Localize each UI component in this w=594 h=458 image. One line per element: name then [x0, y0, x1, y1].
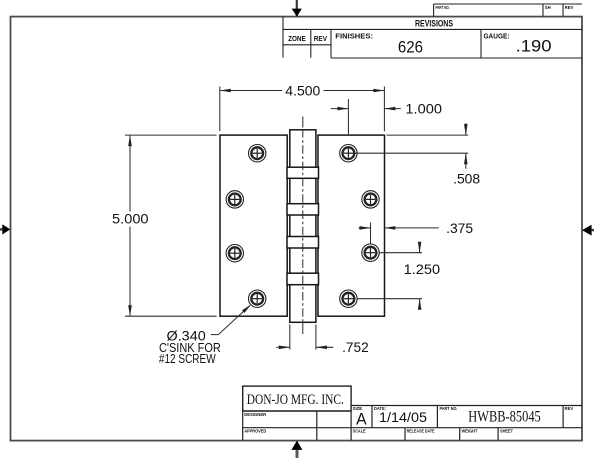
dimension 1.250	[358, 242, 423, 308]
screw hole R2	[362, 191, 379, 208]
svg-text:APPROVED: APPROVED	[244, 428, 266, 434]
svg-text:SH: SH	[545, 5, 551, 11]
svg-text:.752: .752	[342, 340, 369, 355]
screw hole R4	[340, 290, 357, 307]
centering mark right	[582, 225, 594, 236]
svg-text:SCALE: SCALE	[353, 428, 367, 434]
screw hole L3	[226, 245, 243, 262]
svg-text:HWBB-85045: HWBB-85045	[468, 408, 541, 425]
pin centerline	[302, 117, 304, 128]
svg-text:.190: .190	[516, 37, 552, 55]
centering mark bottom	[291, 441, 302, 458]
dimension .375	[359, 223, 439, 245]
bearing ring 1	[287, 167, 319, 178]
dimension .508	[355, 123, 468, 169]
svg-text:DESIGNER: DESIGNER	[244, 412, 266, 418]
bearing ring 4	[287, 273, 319, 285]
dimension 5.000	[125, 135, 217, 316]
svg-text:1.250: 1.250	[404, 262, 441, 277]
screw hole R3	[362, 244, 379, 261]
svg-text:4.500: 4.500	[285, 83, 320, 98]
svg-text:A: A	[356, 409, 367, 428]
screw hole R1	[340, 145, 357, 162]
screw hole L4	[249, 290, 266, 307]
centering mark left	[0, 224, 10, 234]
barrel knuckle column	[290, 130, 316, 322]
svg-text:REVISIONS: REVISIONS	[415, 19, 453, 29]
svg-text:1.000: 1.000	[405, 102, 442, 117]
svg-text:WEIGHT: WEIGHT	[462, 428, 478, 434]
top edge strip cells	[434, 4, 582, 17]
revisions table	[283, 17, 582, 58]
dimension 4.500	[220, 87, 385, 132]
svg-text:REV: REV	[314, 36, 328, 43]
svg-text:.508: .508	[453, 172, 480, 187]
svg-text:#12 SCREW: #12 SCREW	[159, 351, 217, 366]
svg-text:.375: .375	[446, 221, 473, 236]
svg-text:REV: REV	[565, 406, 574, 412]
countersink callout leader	[211, 306, 250, 335]
bearing ring 3	[287, 237, 319, 249]
dimension .752	[276, 325, 333, 350]
screw hole L2	[226, 191, 243, 208]
svg-text:REV: REV	[565, 5, 574, 11]
svg-text:DON-JO MFG. INC.: DON-JO MFG. INC.	[247, 391, 344, 408]
svg-text:5.000: 5.000	[112, 212, 149, 227]
hinge right leaf	[318, 135, 385, 316]
title block lines	[243, 386, 582, 441]
svg-text:GAUGE:: GAUGE:	[484, 33, 510, 40]
centering mark top	[292, 0, 302, 17]
hinge left leaf	[220, 135, 287, 316]
dimension 1.000	[331, 99, 401, 134]
svg-text:FINISHES:: FINISHES:	[335, 34, 373, 41]
svg-text:RELEASE DATE: RELEASE DATE	[407, 428, 436, 434]
svg-text:PART NO.: PART NO.	[436, 5, 450, 11]
svg-text:1/14/05: 1/14/05	[379, 410, 427, 425]
svg-text:626: 626	[398, 38, 423, 56]
svg-text:SHEET: SHEET	[500, 428, 513, 434]
svg-text:ZONE: ZONE	[288, 36, 306, 43]
svg-text:PART NO.: PART NO.	[440, 406, 458, 412]
bearing ring 2	[287, 204, 319, 215]
screw hole L1	[249, 145, 266, 162]
